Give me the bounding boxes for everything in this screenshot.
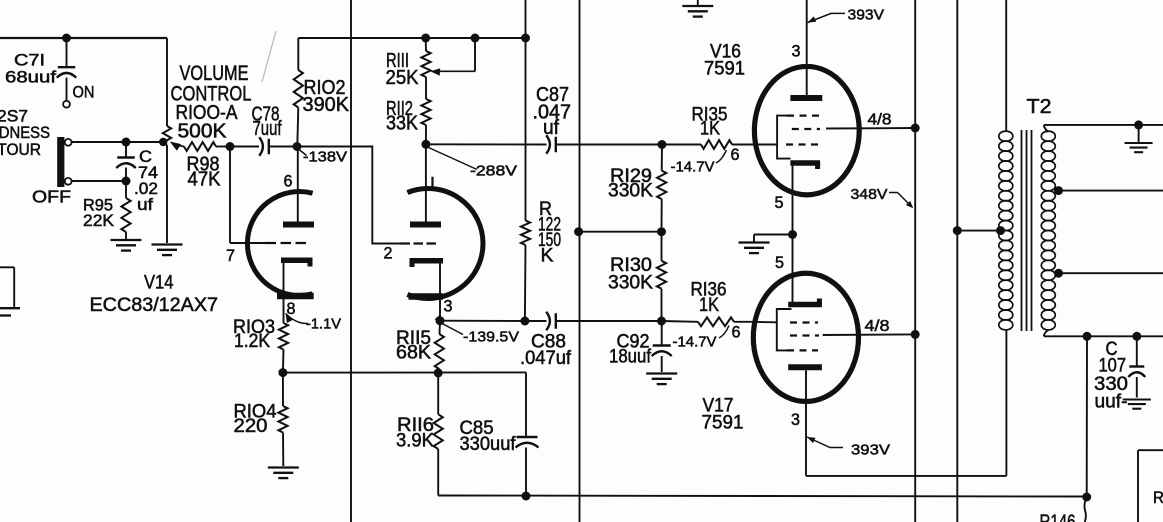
- ground below C107: [1123, 400, 1151, 409]
- label R129 value: [608, 166, 653, 202]
- svg-text:18uuf: 18uuf: [609, 347, 652, 368]
- wire bottom bus tail: [1084, 497, 1086, 522]
- capacitor C85: [516, 372, 539, 496]
- resistor R135: [662, 140, 752, 149]
- switch 2S7 loudness contour arm: [57, 137, 64, 187]
- node R98/C78/grid junction: [226, 142, 235, 151]
- tube V14 right plate (pin 1): [410, 144, 441, 224]
- label C78 value: [252, 104, 282, 141]
- tube V14 right cathode: [410, 261, 444, 321]
- tube V14 left cathode: [281, 260, 313, 323]
- component box lower-right corner: [1138, 450, 1163, 522]
- label 4/8 upper: [868, 112, 892, 129]
- wire secondary bottom lead: [1044, 330, 1163, 336]
- label pin 6 of V14: [284, 172, 293, 191]
- label C71 value: [5, 51, 56, 87]
- svg-text:uf: uf: [543, 117, 559, 139]
- tube V17 envelope: [753, 273, 858, 401]
- node secondary top ground junction: [1134, 120, 1143, 129]
- callout -1.1V: [286, 313, 342, 333]
- node C71 top junction: [62, 34, 71, 43]
- label pin 8 of V14: [287, 299, 296, 318]
- svg-text:1K: 1K: [700, 119, 720, 140]
- tube V16 beam plates bracket: [777, 116, 790, 159]
- label C74 value: [134, 147, 158, 214]
- resistor R129: [657, 145, 666, 232]
- ground near V16 top: [682, 0, 713, 17]
- tube V16 control grid (dashed): [752, 144, 818, 146]
- tube V16 cathode: [790, 163, 820, 235]
- node cathodes ground junction: [788, 230, 797, 239]
- svg-text:ECC83/12AX7: ECC83/12AX7: [90, 294, 219, 316]
- wire cathode bus: [283, 371, 526, 373]
- svg-text:-138V: -138V: [303, 149, 347, 166]
- svg-text:330uuf: 330uuf: [460, 434, 517, 455]
- svg-text:390K: 390K: [303, 94, 350, 116]
- tube V14 right triode envelope arc: [407, 189, 483, 299]
- callout 393V lower: [807, 437, 890, 459]
- wire secondary tap 2: [1056, 272, 1163, 274]
- label pin 3 of V14: [444, 297, 453, 316]
- svg-text:R: R: [1153, 488, 1163, 507]
- node secondary bottom junction 1: [1083, 332, 1092, 341]
- node bottom bus end junction: [1082, 493, 1091, 502]
- label LOUDNESS (partial): [0, 123, 50, 142]
- label C87 value: [533, 84, 572, 139]
- svg-text:1K: 1K: [699, 295, 719, 316]
- wire vertical bus at x=351: [350, 0, 352, 522]
- label R102 value: [303, 77, 350, 116]
- label R122 value: [538, 199, 561, 267]
- svg-text:1.2K: 1.2K: [234, 331, 270, 352]
- callout 348V: [851, 186, 914, 208]
- svg-text:47K: 47K: [188, 169, 222, 191]
- wire left stub to ground: [0, 267, 14, 307]
- svg-text:6: 6: [732, 323, 741, 342]
- scan artifact scratch: [262, 31, 276, 82]
- label C92 value: [609, 332, 652, 368]
- label ON: [73, 83, 95, 102]
- ground on secondary top: [1125, 125, 1153, 152]
- node secondary tap 2: [1054, 269, 1063, 278]
- label 2S7: [0, 107, 28, 126]
- potentiometer R100-A element: [163, 38, 171, 243]
- tube V14 left triode envelope arc: [247, 192, 312, 296]
- tube V14 left bottom electrode: [277, 293, 314, 300]
- node primary tap coil junction: [996, 226, 1005, 235]
- resistor R103: [279, 323, 288, 373]
- wire switch upper contact to pot tap: [72, 141, 166, 143]
- potentiometer R111 wiper: [431, 38, 476, 76]
- node 288V plate junction: [421, 140, 430, 149]
- node V16 4/8 junction: [911, 124, 920, 133]
- svg-text:OFF: OFF: [32, 187, 71, 207]
- tube V17 control grid (dashed): [751, 321, 818, 324]
- label pin 7 of V14: [226, 246, 235, 265]
- label R115 value: [396, 328, 431, 364]
- svg-text:T2: T2: [1027, 96, 1052, 118]
- svg-text:6: 6: [731, 145, 740, 164]
- node C74 bottom junction: [122, 177, 131, 186]
- svg-text:3: 3: [791, 410, 800, 429]
- resistor R104: [278, 373, 287, 466]
- ground at left edge (clipped): [0, 308, 20, 315]
- tube V17 beam plates bracket: [777, 309, 792, 350]
- resistor R130: [657, 232, 666, 321]
- node V17 grid junction: [657, 317, 666, 326]
- ground below volume pot: [152, 245, 183, 256]
- capacitor C87: [426, 135, 662, 154]
- tube V16 plate (pin 3): [790, 0, 822, 98]
- label R116 value: [396, 415, 434, 452]
- resistor R112: [421, 99, 430, 144]
- wire pin7 grid feed: [230, 147, 266, 244]
- node R103/R104 junction: [278, 368, 287, 377]
- svg-text:22K: 22K: [83, 211, 115, 230]
- tube V14 right grid (dashed): [401, 242, 439, 244]
- svg-text:-14.7V: -14.7V: [673, 334, 717, 351]
- ground below R104: [268, 468, 299, 479]
- svg-text:4/8: 4/8: [868, 112, 892, 129]
- svg-text:uf: uf: [137, 195, 153, 214]
- label V14: [144, 273, 174, 294]
- tube V16 envelope: [754, 66, 859, 194]
- svg-text:uuf-: uuf-: [1095, 392, 1128, 413]
- wire secondary top lead: [1044, 125, 1163, 132]
- wire primary tap: [957, 230, 1001, 232]
- node R122 bottom junction: [520, 317, 529, 326]
- node pot tap junction: [159, 138, 167, 146]
- callout -14.7V upper: [671, 150, 727, 176]
- wire bottom bus: [438, 496, 1086, 497]
- transformer T2 primary winding: [999, 0, 1013, 476]
- svg-text:33K: 33K: [386, 113, 419, 135]
- svg-text:6: 6: [284, 172, 293, 191]
- node C85 bottom junction: [522, 492, 531, 501]
- label R104 value: [234, 402, 277, 438]
- svg-text:-288V: -288V: [470, 163, 517, 180]
- resistor R102: [294, 38, 303, 147]
- svg-text:-14.7V: -14.7V: [671, 159, 715, 176]
- node V16 grid junction: [658, 140, 667, 149]
- capacitor C74: [116, 142, 136, 181]
- label pin 3 of V17: [791, 410, 800, 429]
- label T2: [1027, 96, 1052, 118]
- capacitor C107: [1128, 336, 1145, 397]
- svg-text:393V: 393V: [851, 442, 890, 459]
- label pin 5 of V17: [775, 253, 784, 272]
- node R111 top junction: [421, 34, 430, 43]
- label R130 value: [608, 255, 653, 294]
- resistor R115: [435, 321, 444, 373]
- svg-text:68uuf: 68uuf: [5, 68, 56, 87]
- svg-text:500K: 500K: [178, 121, 228, 143]
- tube V17 screen grid (dashed): [790, 334, 819, 336]
- wire switch lower contact to C74: [72, 180, 126, 182]
- svg-text:R146: R146: [1040, 512, 1076, 522]
- callout -138V: [299, 149, 348, 166]
- wire vertical bus at x=580: [579, 0, 581, 522]
- svg-text:V14: V14: [144, 273, 174, 294]
- svg-text:330K: 330K: [608, 273, 653, 294]
- capacitor C88: [525, 312, 662, 331]
- wire vertical bus at x=915 (348V line): [914, 0, 916, 522]
- node ON switch contact: [63, 101, 70, 108]
- tube V17 grid3 (dashed): [787, 349, 818, 351]
- label C85 value: [460, 418, 517, 455]
- label CONTOUR (partial): [0, 140, 41, 159]
- capacitor C78: [230, 137, 297, 156]
- label R103 value: [233, 317, 275, 352]
- node R122 top junction: [521, 34, 530, 43]
- label R136 value: [691, 280, 727, 317]
- wire V17 plate to transformer: [806, 475, 1006, 477]
- svg-text:3: 3: [792, 42, 801, 61]
- node -138V plate junction: [293, 142, 302, 151]
- label R146 (clipped): [1040, 512, 1076, 522]
- node primary tap left junction: [953, 226, 962, 235]
- node secondary bottom junction 2: [1132, 332, 1141, 341]
- svg-text:7uuf: 7uuf: [253, 118, 282, 140]
- tube V14 right bottom electrode: [409, 293, 444, 300]
- label R100-A 500K: [176, 102, 239, 143]
- wire V16 screen to 4/8 bus: [826, 127, 915, 130]
- svg-text:25K: 25K: [386, 67, 420, 89]
- label VOLUME CONTROL: [171, 62, 252, 106]
- label pin 6 of V17: [732, 323, 741, 342]
- node switch lower contact: [65, 178, 72, 185]
- tube V14 left plate (pin 6): [283, 147, 314, 225]
- node V17 4/8 junction: [911, 330, 920, 339]
- transformer T2 secondary winding: [1041, 131, 1055, 330]
- svg-text:3: 3: [444, 297, 453, 316]
- resistor R95: [121, 181, 130, 239]
- svg-text:7591: 7591: [704, 59, 745, 80]
- node 139.5V junction: [436, 316, 445, 325]
- tube V16 grid3 (dashed): [787, 114, 820, 116]
- node secondary tap 1: [1054, 186, 1063, 195]
- label 4/8 lower: [865, 318, 890, 335]
- wire cathode to ground: [754, 235, 793, 242]
- capacitor C71: [57, 38, 77, 101]
- capacitor C92: [652, 321, 672, 372]
- svg-text:2: 2: [384, 244, 393, 263]
- label R111 value: [386, 50, 420, 89]
- ground at cathodes: [739, 243, 770, 254]
- label OFF: [32, 187, 71, 207]
- resistor R111 (with wiper): [421, 38, 430, 99]
- svg-text:393V: 393V: [848, 7, 885, 24]
- tube V17 cathode: [788, 235, 822, 305]
- resistor R122: [521, 0, 530, 321]
- label pin 1 of V14: [430, 174, 435, 193]
- wire secondary tap 1: [1056, 190, 1163, 192]
- transformer T2 core: [1022, 130, 1032, 331]
- resistor R98: [184, 142, 230, 151]
- potentiometer R100-A wiper arrow: [170, 142, 184, 151]
- svg-text:348V: 348V: [851, 186, 888, 203]
- node switch upper contact: [65, 139, 72, 146]
- ground below C92: [646, 374, 677, 385]
- wire feedback tap: [579, 231, 662, 233]
- svg-text:5: 5: [775, 253, 784, 272]
- wire vertical bus at x=957: [956, 0, 958, 522]
- svg-text:68K: 68K: [396, 343, 431, 364]
- callout 393V upper: [808, 7, 884, 24]
- svg-text:.047uf: .047uf: [520, 348, 572, 369]
- label C88 value: [520, 332, 572, 370]
- label pin 6 of V16: [731, 145, 740, 164]
- svg-text:K: K: [541, 246, 554, 267]
- callout -14.7V lower: [673, 326, 730, 351]
- svg-text:ON: ON: [73, 83, 95, 102]
- label V17: [702, 396, 744, 434]
- tube V17 plate (pin 3): [788, 367, 822, 476]
- node C74 top junction: [122, 138, 131, 147]
- label R135 value: [692, 105, 728, 140]
- callout -139.5V: [435, 315, 519, 345]
- wire pin2 grid feed: [297, 147, 401, 244]
- svg-text:7: 7: [226, 246, 235, 265]
- wire V17 screen to 4/8 bus: [823, 333, 916, 336]
- node R129/R130 junction: [657, 227, 666, 236]
- svg-text:I: I: [430, 174, 435, 193]
- node R115/R116 junction: [434, 368, 443, 377]
- wire V14 plate to C88: [440, 320, 525, 322]
- wire top rail to R122: [298, 37, 525, 39]
- wire top-left horizontal to volume pot: [0, 37, 167, 39]
- svg-text:NTOUR: NTOUR: [0, 140, 41, 159]
- tube V14 left grid (dashed): [266, 242, 310, 244]
- svg-text:4/8: 4/8: [865, 318, 890, 335]
- svg-text:-139.5V: -139.5V: [463, 329, 519, 346]
- ground below R95: [111, 240, 142, 251]
- label R95 value: [83, 196, 115, 231]
- wire speaker return drop: [1086, 336, 1088, 497]
- svg-text:5: 5: [775, 193, 784, 212]
- label V16: [704, 42, 745, 80]
- node R111 wiper top junction: [471, 34, 480, 43]
- svg-text:220: 220: [234, 416, 268, 437]
- label R inside box: [1153, 488, 1163, 507]
- label pin 2 of V14: [384, 244, 393, 263]
- svg-text:7591: 7591: [702, 413, 744, 434]
- node feedback bus junction: [574, 227, 583, 236]
- label ECC83/12AX7: [90, 294, 219, 316]
- resistor R116: [434, 373, 443, 496]
- label pin 5 of V16: [775, 193, 784, 212]
- svg-text:-1.1V: -1.1V: [306, 316, 341, 333]
- svg-text:330K: 330K: [608, 181, 653, 202]
- tube V16 screen grid (dashed): [792, 128, 820, 130]
- label R112 value: [386, 98, 419, 135]
- svg-text:3.9K: 3.9K: [396, 431, 434, 452]
- label C107 value: [1094, 339, 1128, 413]
- label pin 3 of V16: [792, 42, 801, 61]
- resistor R136: [662, 317, 751, 326]
- label R98 value: [187, 154, 222, 191]
- callout -288V: [429, 148, 518, 180]
